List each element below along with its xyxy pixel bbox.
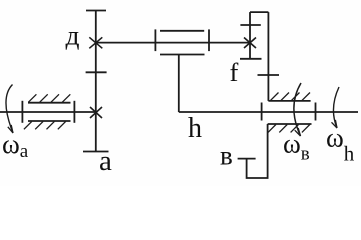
rotation arrow ω_a arc xyxy=(6,85,13,134)
svg-text:д: д xyxy=(66,20,80,51)
middle gear block: right tick xyxy=(208,29,210,51)
T-bottom xyxy=(83,151,109,153)
ring gear vertical link xyxy=(267,12,269,101)
arrowhead ω_h xyxy=(332,120,338,128)
X joint lower (a) xyxy=(90,107,102,118)
svg-text:ωa: ωa xyxy=(2,129,29,162)
carrier bar under middle gear xyxy=(160,54,205,56)
vertical shaft line (gear a axis) xyxy=(95,11,97,152)
ring gear left tick xyxy=(261,103,263,121)
horizontal shaft д-f xyxy=(96,42,250,44)
arrowhead ω_в xyxy=(295,128,301,136)
hatching below ring bottom rim xyxy=(268,125,310,133)
hatching above left block xyxy=(28,94,70,102)
tick on ring link xyxy=(258,74,280,76)
gear д fixed block left: right tick xyxy=(73,101,75,123)
X joint f xyxy=(244,38,256,49)
ring gear top rim xyxy=(268,100,310,102)
X joint upper (д) xyxy=(89,37,102,48)
ring gear bottom rim xyxy=(268,123,312,125)
bracket top f to ring xyxy=(250,11,268,13)
gear block left: bottom edge xyxy=(28,120,71,122)
svg-text:ωh: ωh xyxy=(326,123,355,166)
f upper tick xyxy=(240,24,260,26)
ring gear right tick xyxy=(315,103,317,121)
svg-text:a: a xyxy=(99,145,112,177)
svg-text:ωв: ωв xyxy=(283,129,310,165)
svg-text:h: h xyxy=(188,113,202,144)
carrier horizontal shaft h xyxy=(179,111,358,113)
carrier vertical drop xyxy=(178,55,180,113)
svg-text:f: f xyxy=(230,57,239,87)
shaft f vertical xyxy=(249,12,251,59)
arrowhead ω_a xyxy=(8,125,13,133)
f lower T tick xyxy=(240,58,262,60)
gear block left: top edge xyxy=(28,102,71,104)
hatching above ring top rim xyxy=(271,93,311,101)
hatching below left block xyxy=(24,121,66,129)
middle gear block: top edge xyxy=(160,30,204,32)
bracket в: down, left, up xyxy=(247,124,268,178)
mid tick xyxy=(86,71,107,73)
middle gear block: left tick xyxy=(154,29,156,51)
в T tick xyxy=(238,158,256,160)
rotation arrow ω_h arc xyxy=(333,87,339,128)
T-top xyxy=(86,10,106,12)
rotation arrow ω_в arc xyxy=(294,83,301,136)
shaft a input (left horizontal shaft) xyxy=(0,111,96,113)
gear д fixed block left: left tick xyxy=(21,101,23,123)
svg-text:в: в xyxy=(220,141,233,171)
